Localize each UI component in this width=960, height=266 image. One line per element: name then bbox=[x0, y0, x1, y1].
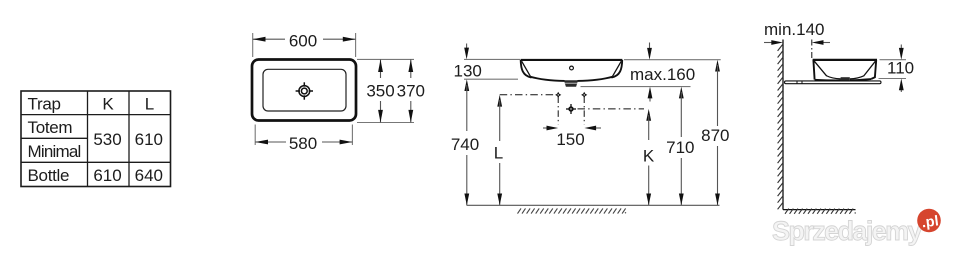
svg-text:610: 610 bbox=[135, 130, 163, 149]
dim min140 arrow right (to wall) bbox=[764, 42, 772, 44]
watermark pl circle bbox=[917, 209, 941, 233]
slab tick 1 bbox=[796, 81, 798, 84]
side view wall line bbox=[782, 40, 784, 210]
table row line 3 bbox=[21, 161, 171, 163]
front view basin left outer wall bbox=[521, 60, 532, 78]
dim 580 extension line right bbox=[351, 125, 353, 146]
dim 710 line upper bbox=[680, 92, 682, 137]
svg-text:Trap: Trap bbox=[28, 94, 61, 113]
table column line 1 bbox=[87, 91, 89, 187]
svg-text:130: 130 bbox=[454, 62, 482, 81]
front view basin left inner wall bbox=[522, 61, 531, 76]
side view countertop slab bbox=[785, 81, 882, 84]
front view floor hatching bbox=[518, 208, 626, 213]
dim 600 extension line right bbox=[355, 33, 357, 57]
dim 580 arrow left bbox=[255, 140, 268, 145]
basin front edge dash-dot (side view) bbox=[811, 40, 813, 60]
trap marker right (4-point star) bbox=[581, 92, 587, 98]
dim 370 line upper bbox=[410, 59, 412, 78]
countertop level line (max.160 bottom ref) bbox=[581, 86, 691, 88]
dim 350 arrow down bbox=[378, 110, 383, 123]
dim 740 line lower bbox=[466, 155, 468, 205]
dim 600 arrow left bbox=[253, 37, 266, 42]
front view basin right outer wall bbox=[611, 60, 622, 78]
dim K line lower bbox=[648, 166, 650, 206]
svg-text:710: 710 bbox=[666, 138, 694, 157]
svg-text:530: 530 bbox=[93, 130, 121, 149]
top view drain symbol bbox=[296, 82, 313, 99]
dim L arrow down (floor) bbox=[497, 194, 502, 206]
side view basin inner bottom right bbox=[850, 76, 864, 79]
top view outer rim bbox=[252, 60, 356, 121]
trap height dash-dot line L level bbox=[500, 94, 555, 96]
front view basin right inner wall bbox=[613, 61, 622, 76]
dim max160 arrow down (above) bbox=[649, 43, 651, 51]
svg-text:110: 110 bbox=[887, 59, 914, 78]
table row line 2 (partial, first column only) bbox=[21, 137, 88, 139]
dim 600 extension line left bbox=[252, 33, 254, 57]
front view basin top rim bbox=[521, 59, 623, 61]
dim 370 line lower bbox=[410, 101, 412, 123]
svg-text:K: K bbox=[643, 146, 655, 165]
front view basin bottom left bbox=[530, 77, 565, 81]
trap table outer border bbox=[21, 91, 171, 187]
front view overflow hole bbox=[570, 66, 574, 70]
svg-text:Totem: Totem bbox=[28, 118, 73, 137]
svg-text:640: 640 bbox=[135, 166, 163, 185]
trap marker right vertical dash-dot bbox=[583, 97, 585, 125]
svg-text:L: L bbox=[145, 94, 154, 113]
side view floor line bbox=[783, 209, 856, 211]
dim 740 top arrow up bbox=[464, 79, 469, 91]
side view basin right inner wall bbox=[864, 61, 876, 76]
dim 870 arrow down (floor) bbox=[715, 194, 720, 206]
basin top extension right (max.160 top ref) bbox=[624, 59, 721, 61]
dim 370 arrow down bbox=[408, 110, 413, 123]
dim 870 line upper bbox=[717, 65, 719, 126]
svg-text:Sprzedajemy: Sprzedajemy bbox=[772, 216, 923, 246]
dim L line upper bbox=[499, 100, 501, 141]
svg-text:600: 600 bbox=[289, 31, 317, 50]
top view inner basin bbox=[263, 69, 346, 111]
dim 110 extension top bbox=[880, 59, 907, 61]
trap marker left vertical dash-dot bbox=[557, 97, 559, 125]
front view drain stripe bbox=[565, 82, 578, 84]
slab tick 2 bbox=[801, 81, 803, 84]
dim 710 arrow up bbox=[679, 87, 684, 99]
dim 710 line lower bbox=[680, 158, 682, 205]
dim 740 line upper bbox=[466, 85, 468, 131]
svg-text:Minimal: Minimal bbox=[28, 142, 81, 161]
dim 580 line left segment bbox=[255, 141, 286, 143]
side view basin left inner wall bbox=[814, 61, 826, 76]
svg-text:580: 580 bbox=[289, 134, 317, 153]
dim 350 line lower bbox=[380, 101, 382, 123]
table column line 2 bbox=[128, 91, 130, 187]
dim 710 arrow down (floor) bbox=[679, 194, 684, 206]
dim L arrow up bbox=[497, 95, 502, 107]
front floor hatch end dot bbox=[625, 212, 626, 213]
dim 150 arrow left bbox=[591, 127, 601, 129]
side view basin inner bottom left bbox=[826, 76, 841, 79]
svg-text:370: 370 bbox=[397, 82, 425, 101]
side view floor hatching bbox=[785, 209, 853, 214]
top view right extension line top bbox=[357, 58, 414, 60]
svg-text:K: K bbox=[102, 94, 114, 113]
dim 130 extension top bbox=[464, 58, 520, 60]
svg-text:870: 870 bbox=[701, 126, 729, 145]
dim 580 arrow right bbox=[340, 140, 353, 145]
dim 350 arrow up bbox=[378, 59, 383, 72]
dim 110 arrow up (below) bbox=[900, 86, 902, 92]
dim min140 arrow left (to basin line) bbox=[822, 42, 830, 44]
dim K arrow up bbox=[646, 109, 651, 121]
svg-text:L: L bbox=[494, 144, 503, 163]
front view floor line bbox=[467, 204, 720, 206]
side view basin right outer wall bbox=[871, 60, 876, 79]
side view basin bottom left edge bbox=[815, 79, 841, 82]
side view basin left outer wall bbox=[813, 60, 814, 80]
side view wall hatching bbox=[778, 44, 783, 209]
svg-text:150: 150 bbox=[556, 130, 584, 149]
trap marker left (4-point star) bbox=[555, 92, 561, 98]
dim K line upper bbox=[648, 115, 650, 140]
svg-text:Bottle: Bottle bbox=[28, 166, 70, 185]
svg-text:740: 740 bbox=[451, 135, 479, 154]
dim 600 line right segment bbox=[323, 38, 356, 40]
dim K arrow down (floor) bbox=[646, 194, 651, 206]
side view basin bottom right edge bbox=[850, 79, 872, 80]
dim 580 extension line left bbox=[254, 125, 256, 146]
svg-text:350: 350 bbox=[366, 82, 394, 101]
side view basin top rim bbox=[813, 59, 877, 61]
svg-text:.pl: .pl bbox=[921, 213, 940, 231]
dim 870 line lower bbox=[717, 146, 719, 205]
drain center marker (circle target) bbox=[566, 104, 576, 114]
dim 600 line left segment bbox=[253, 38, 285, 40]
dim 580 line right segment bbox=[322, 141, 352, 143]
dim 600 arrow right bbox=[343, 37, 356, 42]
dim 130 arrow down (above) bbox=[466, 44, 468, 53]
dim max160 arrow up (below) bbox=[649, 94, 651, 102]
side floor hatch end dot bbox=[855, 212, 856, 213]
svg-text:max.160: max.160 bbox=[630, 65, 695, 84]
front view drain bbox=[564, 80, 578, 87]
dim 740 arrow down (floor) bbox=[464, 194, 469, 206]
drain center dash-dot line right bbox=[578, 108, 645, 110]
table row line 1 bbox=[21, 114, 171, 116]
front view basin bottom right bbox=[577, 77, 613, 81]
dim 110 extension bottom bbox=[879, 78, 907, 80]
dim 150 arrow right bbox=[543, 127, 552, 129]
dim 370 arrow up bbox=[408, 59, 413, 72]
dim 350 line upper bbox=[380, 59, 382, 78]
dim 870 arrow up bbox=[715, 60, 720, 72]
svg-text:610: 610 bbox=[93, 166, 121, 185]
side view drain bbox=[841, 77, 850, 81]
svg-text:min.140: min.140 bbox=[764, 20, 824, 39]
dim 130 extension bottom bbox=[464, 78, 518, 80]
top view right extension line bottom bbox=[357, 122, 414, 124]
dim 110 arrow down (above) bbox=[900, 45, 902, 53]
dim L line lower bbox=[499, 163, 501, 205]
